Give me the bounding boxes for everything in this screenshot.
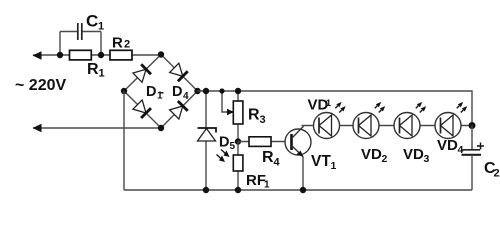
node dot right of R1: [98, 52, 104, 58]
svg-text:1: 1: [326, 98, 331, 108]
svg-text:2: 2: [382, 153, 388, 165]
transistor VT1: [285, 129, 311, 155]
node emitter bottom: [300, 187, 306, 193]
diode D3 bottom-right: [169, 101, 187, 119]
svg-text:2: 2: [494, 168, 500, 180]
node top vertex: [158, 51, 164, 57]
node R3 top: [235, 88, 241, 94]
svg-text:1: 1: [99, 68, 105, 80]
svg-text:-: -: [160, 85, 164, 99]
node LED rail right: [469, 122, 476, 129]
resistor R4: [249, 137, 271, 147]
svg-text:VD: VD: [437, 137, 458, 154]
emitter wire down: [302, 157, 304, 191]
trimmer wiper arrow of R3: [222, 91, 229, 112]
svg-text:D: D: [146, 84, 156, 100]
svg-text:R: R: [262, 149, 274, 166]
node right vertex: [194, 88, 200, 94]
svg-text:R: R: [248, 107, 260, 124]
svg-text:VD: VD: [361, 146, 382, 163]
capacitor C1: [77, 23, 79, 40]
svg-text:4: 4: [183, 91, 189, 102]
collector lead: [292, 126, 304, 138]
wire: C1 branch horizontal: [60, 31, 101, 33]
svg-text:1: 1: [331, 160, 337, 172]
wire: C1 branch right vertical: [100, 32, 102, 56]
node D5 top: [203, 88, 209, 94]
wire: bottom AC line: [33, 127, 161, 129]
svg-text:2: 2: [124, 39, 130, 51]
photoresistor RF1: [233, 155, 243, 171]
svg-text:4: 4: [274, 157, 281, 169]
LED VD2: [353, 102, 385, 139]
svg-text:1: 1: [98, 21, 104, 33]
emitter lead: [292, 146, 304, 157]
svg-text:VT: VT: [311, 153, 331, 170]
arrow AC input top: [33, 51, 42, 59]
svg-text:D: D: [172, 84, 182, 100]
svg-text:R: R: [87, 61, 99, 78]
node RF1 bottom: [235, 187, 241, 193]
wire: top AC line: [33, 54, 161, 56]
svg-text:~ 220V: ~ 220V: [15, 77, 66, 94]
LED VD1: [314, 102, 346, 139]
wire LED row: [302, 125, 473, 127]
node dot left of R1: [57, 52, 63, 58]
diode D4 top-right: [169, 63, 187, 81]
svg-text:C: C: [86, 12, 98, 31]
arrow AC input bottom: [33, 124, 42, 132]
svg-text:5: 5: [230, 141, 236, 152]
diode D1 top-left: [133, 64, 151, 82]
wire: bottom rail: [124, 189, 472, 191]
node bottom vertex: [158, 125, 164, 131]
LED VD4: [435, 102, 467, 139]
wire: top DC rail: [198, 91, 473, 125]
node wiper top: [219, 88, 224, 93]
wire R4 horizontal: [238, 141, 291, 143]
base bar: [290, 134, 293, 150]
resistor R1: [70, 50, 92, 60]
svg-text:VD: VD: [403, 146, 424, 163]
wire: left vertical to bottom rail: [123, 91, 125, 190]
plus sign of C2: [477, 143, 484, 150]
svg-text:D: D: [219, 135, 229, 151]
svg-text:RF: RF: [246, 172, 266, 189]
node left vertex: [121, 88, 127, 94]
zener D5 vertical wire: [205, 91, 207, 190]
node mid junction: [235, 138, 241, 144]
resistor R2: [110, 50, 132, 60]
zener diode D5: [198, 129, 216, 142]
capacitor C2: [471, 126, 473, 150]
light arrows into RF1: [217, 150, 227, 160]
svg-text:1: 1: [264, 180, 270, 191]
wire R3 vertical: [237, 91, 239, 142]
svg-text:3: 3: [424, 153, 430, 165]
svg-text:R: R: [112, 35, 123, 52]
bridge rectifier edges: [124, 55, 198, 129]
diode D2 bottom-left: [133, 100, 151, 118]
wire: C1 branch left vertical: [59, 32, 61, 56]
resistor R3: [233, 101, 243, 124]
svg-text:3: 3: [260, 114, 266, 126]
node D5 bottom: [203, 187, 209, 193]
LED VD3: [394, 102, 426, 139]
wire RF1 vertical: [237, 142, 239, 191]
